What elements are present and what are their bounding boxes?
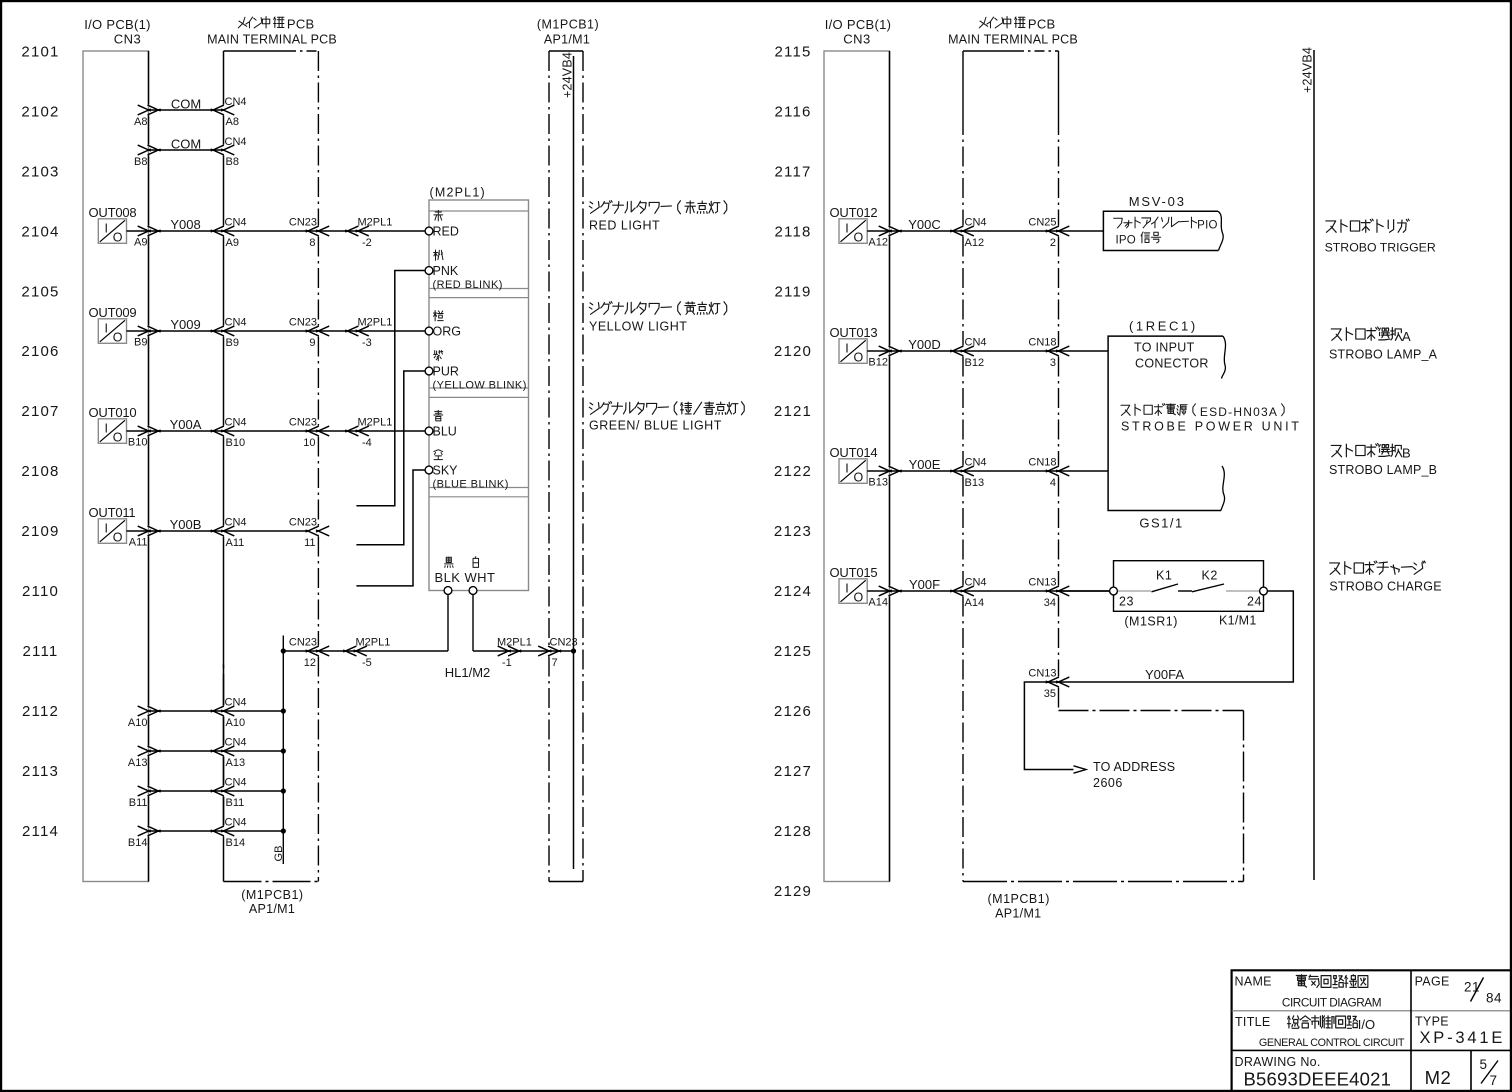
svg-text:CN23: CN23 [289, 217, 317, 229]
terminal BLU on M2PL1 [425, 427, 433, 435]
svg-text:I: I [845, 581, 848, 595]
svg-text:O: O [113, 331, 123, 345]
svg-text:M2PL1: M2PL1 [356, 637, 391, 649]
svg-text:CN18: CN18 [1028, 457, 1056, 469]
svg-text:2103: 2103 [21, 163, 59, 180]
svg-text:A13: A13 [226, 757, 246, 769]
svg-text:2108: 2108 [21, 463, 59, 480]
chevron CN3 A11 out [138, 526, 151, 532]
svg-text:WHT: WHT [465, 570, 496, 585]
label 紫 (PUR) [434, 351, 436, 355]
chevron M2PL1 -1 [508, 646, 521, 652]
chevron CN4 A14 [950, 586, 963, 592]
svg-text:OUT011: OUT011 [89, 505, 136, 520]
svg-text:2113: 2113 [22, 763, 59, 780]
I/O output symbol OUT008 [98, 219, 126, 244]
svg-text:PNK: PNK [433, 264, 459, 278]
wire Y00A [127, 430, 426, 432]
I/O output symbol OUT013 [839, 339, 867, 364]
svg-text:B10: B10 [128, 437, 148, 449]
svg-text:2111: 2111 [23, 643, 59, 660]
svg-text:COM: COM [171, 137, 201, 152]
chevron CN4 B14 [211, 826, 224, 832]
svg-text:2104: 2104 [21, 223, 59, 240]
terminal SKY on M2PL1 [425, 466, 433, 474]
svg-text:(M2PL1): (M2PL1) [430, 186, 486, 200]
chevron M2PL1 -4 [345, 426, 358, 432]
component box MSV-03 [1103, 211, 1218, 250]
I/O output symbol OUT015 [839, 579, 867, 604]
page slash [1471, 978, 1484, 1002]
chevron CN3 A14 out [879, 586, 892, 592]
svg-text:Y00B: Y00B [170, 517, 202, 532]
title 電気回路線図 [1296, 974, 1306, 976]
label 青 (BLU) [435, 410, 442, 412]
svg-text:24: 24 [1247, 595, 1262, 609]
svg-text:2107: 2107 [21, 403, 59, 420]
svg-text:OUT013: OUT013 [830, 325, 878, 340]
svg-text:RED LIGHT: RED LIGHT [589, 219, 660, 233]
svg-text:2115: 2115 [774, 44, 811, 61]
svg-text:A9: A9 [226, 237, 239, 249]
svg-text:CN4: CN4 [225, 777, 247, 789]
svg-text:B14: B14 [128, 837, 148, 849]
MAIN TERMINAL PCB right edge (right) [1058, 51, 1060, 115]
svg-text:MAIN TERMINAL PCB: MAIN TERMINAL PCB [207, 33, 337, 47]
svg-text:GREEN/ BLUE LIGHT: GREEN/ BLUE LIGHT [589, 419, 722, 433]
svg-text:2106: 2106 [21, 343, 59, 360]
svg-text:CN4: CN4 [225, 136, 247, 148]
svg-text:CN13: CN13 [1028, 668, 1056, 680]
svg-text:B11: B11 [129, 797, 148, 809]
MAIN TERMINAL PCB right edge CN23 line (left) [317, 51, 319, 226]
svg-text:2114: 2114 [22, 823, 59, 840]
junction dot GB bus A13 [281, 748, 286, 753]
svg-text:PCB: PCB [287, 17, 315, 32]
svg-text:OUT014: OUT014 [830, 445, 878, 460]
svg-text:CN25: CN25 [1028, 217, 1056, 229]
+24VB4 power rail (right) [1313, 50, 1315, 880]
annotation ストロボチャージ [1330, 563, 1340, 574]
svg-text:2606: 2606 [1093, 776, 1123, 790]
svg-text:5: 5 [1480, 1057, 1488, 1072]
svg-text:A12: A12 [965, 237, 985, 249]
svg-text:B9: B9 [134, 337, 147, 349]
label フォトアイソレートPIO [1114, 218, 1123, 228]
svg-text:2118: 2118 [774, 223, 811, 240]
chevron CN4 A9 [211, 226, 224, 232]
svg-text:B9: B9 [226, 337, 239, 349]
label 白 (WHT) [474, 557, 477, 559]
svg-text:O: O [113, 531, 123, 545]
svg-text:(M1PCB1): (M1PCB1) [537, 18, 599, 32]
svg-text:AP1/M1: AP1/M1 [995, 907, 1041, 921]
wire Y00F [867, 590, 1110, 592]
svg-text:O: O [854, 471, 864, 485]
chevron CN3 B12 out [879, 346, 892, 352]
svg-text:CN23: CN23 [289, 317, 317, 329]
svg-text:I: I [845, 221, 848, 235]
annotation ストロボトリガ [1326, 221, 1336, 232]
svg-text:2117: 2117 [774, 163, 811, 180]
chevron CN4 B8 [211, 145, 224, 151]
chevron CN3 A9 out [138, 226, 151, 232]
terminal BLK on M2PL1 [444, 587, 452, 595]
svg-text:2109: 2109 [21, 523, 59, 540]
svg-text:CN4: CN4 [225, 417, 247, 429]
svg-text:(M1SR1): (M1SR1) [1124, 615, 1178, 629]
svg-text:(M1PCB1): (M1PCB1) [241, 888, 303, 902]
wire Y00E [867, 470, 1108, 472]
svg-text:AP1/M1: AP1/M1 [249, 902, 295, 916]
MAIN TERMINAL PCB step edge vertical (right) [1243, 711, 1245, 882]
chevron CN3 A8 out [138, 105, 151, 111]
svg-text:-3: -3 [362, 337, 372, 349]
chevron CN3 B14 out [138, 826, 151, 832]
svg-text:M2PL1: M2PL1 [358, 217, 393, 229]
header メイン中継PCB (left) [238, 17, 245, 28]
chevron CN4 B13 [950, 466, 963, 472]
svg-text:7: 7 [552, 657, 558, 669]
contact blade K1 [1152, 584, 1179, 592]
terminal 23 (K1 box left) [1110, 587, 1118, 595]
title block divider row1 [1232, 1010, 1510, 1012]
svg-text:A13: A13 [128, 757, 148, 769]
svg-text:34: 34 [1044, 597, 1056, 609]
chevron CN4 B10 [211, 426, 224, 432]
chevron CN4 B12 [950, 346, 963, 352]
svg-text:OUT010: OUT010 [89, 405, 137, 420]
svg-text:A14: A14 [868, 597, 888, 609]
svg-text:2112: 2112 [22, 703, 59, 720]
chevron CN4 A8 [211, 105, 224, 111]
junction dot WHT/+24VB4 [571, 648, 576, 653]
svg-text:COM: COM [171, 97, 201, 112]
chevron M2PL1 -3 [345, 326, 358, 332]
svg-text:I/O PCB(1): I/O PCB(1) [84, 17, 151, 32]
annotation シグナルタワー（黄点灯） [590, 303, 593, 305]
svg-text:2125: 2125 [774, 643, 812, 660]
svg-text:2124: 2124 [774, 583, 812, 600]
svg-text:STROBO LAMP_B: STROBO LAMP_B [1329, 463, 1437, 477]
junction dot GB bus B11 [281, 788, 286, 793]
wire SKY blink [356, 470, 425, 586]
svg-text:O: O [854, 591, 864, 605]
label 橙 (ORG) [434, 310, 436, 320]
CN3 right edge boundary (left) [148, 51, 150, 105]
svg-text:B8: B8 [226, 156, 239, 168]
title 総合制御回路I/O [1288, 1016, 1289, 1019]
svg-text:+24VB4: +24VB4 [561, 52, 575, 98]
chevron CN23 pin 8 [306, 226, 319, 232]
MAIN TERMINAL PCB left edge (left) [223, 51, 225, 105]
MAIN TERMINAL PCB bottom edge (left) [224, 881, 319, 883]
svg-text:CN23: CN23 [550, 637, 578, 649]
svg-text:XP-341E: XP-341E [1420, 1029, 1506, 1047]
svg-text:(BLUE BLINK): (BLUE BLINK) [433, 479, 509, 491]
CN3 right edge boundary (right) [889, 51, 891, 226]
chevron CN13 pin 35 [1046, 677, 1059, 683]
svg-text:CN4: CN4 [225, 217, 247, 229]
wire COM B8 [149, 149, 224, 151]
I/O PCB CN3 connector box (left) [83, 51, 149, 882]
chevron CN4 A12 [950, 226, 963, 232]
svg-text:CIRCUIT DIAGRAM: CIRCUIT DIAGRAM [1282, 996, 1381, 1010]
svg-text:STROBE POWER UNIT: STROBE POWER UNIT [1121, 420, 1302, 434]
svg-text:B10: B10 [226, 437, 246, 449]
contact base line (grey) [1117, 590, 1151, 592]
annotation ストロボ選択A [1331, 329, 1341, 340]
sheet slash [1481, 1061, 1498, 1084]
svg-text:2116: 2116 [774, 104, 811, 121]
svg-text:M2PL1: M2PL1 [358, 317, 393, 329]
svg-text:PUR: PUR [433, 365, 459, 379]
MAIN TERMINAL PCB top edge (left) [224, 50, 287, 52]
label 赤 (RED) [435, 211, 441, 213]
label +24VB4 (left) [561, 52, 575, 98]
svg-text:I: I [105, 521, 108, 535]
svg-text:2110: 2110 [22, 583, 59, 600]
svg-text:3: 3 [1050, 357, 1056, 369]
svg-text:84: 84 [1486, 991, 1502, 1006]
svg-text:10: 10 [303, 437, 315, 449]
chevron CN3 A10 out [138, 706, 151, 712]
wire CN13-35 to address [1024, 682, 1073, 770]
chevron CN4 A11 [211, 526, 224, 532]
svg-text:Y00E: Y00E [909, 457, 941, 472]
svg-text:Y00A: Y00A [170, 417, 202, 432]
chevron CN3 B9 out [138, 326, 151, 332]
svg-text:BLU: BLU [433, 425, 457, 439]
junction dot GB bus A10 [281, 708, 286, 713]
svg-text:I: I [105, 221, 108, 235]
svg-text:CN4: CN4 [225, 697, 247, 709]
svg-text:Y00D: Y00D [908, 337, 941, 352]
chevron CN3 A13 out [138, 746, 151, 752]
terminal WHT on M2PL1 [469, 587, 477, 595]
svg-text:2122: 2122 [774, 463, 812, 480]
svg-text:2: 2 [1050, 237, 1056, 249]
svg-text:B14: B14 [226, 837, 246, 849]
chevron M2PL1 -5 [343, 646, 356, 652]
svg-text:STROBO LAMP_A: STROBO LAMP_A [1329, 348, 1438, 362]
MAIN TERMINAL PCB top edge (right) [963, 50, 1014, 52]
svg-text:A10: A10 [128, 717, 148, 729]
svg-text:I: I [105, 321, 108, 335]
svg-text:Y00FA: Y00FA [1145, 667, 1184, 682]
wire Y00D [867, 350, 1108, 352]
chevron CN3 B10 out [138, 426, 151, 432]
M2PL1 section divider 2a [429, 387, 529, 389]
relay contact box K1/M1 [1114, 561, 1264, 612]
svg-text:B12: B12 [965, 357, 985, 369]
svg-text:TO ADDRESS: TO ADDRESS [1093, 760, 1175, 774]
wire PNK blink [356, 271, 425, 506]
svg-text:CN4: CN4 [965, 577, 987, 589]
GB bus vertical [282, 636, 284, 865]
svg-text:4: 4 [1050, 477, 1056, 489]
svg-text:I: I [845, 341, 848, 355]
svg-text:12: 12 [304, 657, 316, 669]
label ストロボ電源（ESD-HN03A） [1121, 405, 1130, 415]
annotation ストロボ選択B [1331, 445, 1341, 456]
svg-text:TO INPUT: TO INPUT [1134, 341, 1195, 355]
svg-text:11: 11 [304, 537, 315, 549]
M2PL1 section divider 1b [429, 297, 529, 299]
svg-text:DRAWING No.: DRAWING No. [1235, 1055, 1321, 1069]
chevron CN4 B9 [211, 326, 224, 332]
annotation シグナルタワー（赤点灯） [590, 202, 593, 204]
svg-text:A11: A11 [226, 537, 245, 549]
title block divider col [1410, 970, 1412, 1090]
svg-text:K1/M1: K1/M1 [1219, 614, 1257, 628]
svg-text:+24VB4: +24VB4 [1301, 47, 1315, 93]
svg-text:STROBO CHARGE: STROBO CHARGE [1329, 580, 1441, 594]
junction dot GB bus row 2111 [281, 648, 286, 653]
svg-text:CN23: CN23 [289, 417, 317, 429]
svg-text:A10: A10 [226, 717, 246, 729]
svg-text:2128: 2128 [774, 823, 812, 840]
svg-text:2121: 2121 [774, 403, 812, 420]
svg-text:Y008: Y008 [170, 217, 200, 232]
chevron CN23 pin 7 out [538, 646, 551, 652]
svg-text:PIO: PIO [1197, 220, 1218, 232]
label 空 (SKY) [434, 450, 443, 452]
svg-text:OUT009: OUT009 [89, 305, 137, 320]
title block outer box [1232, 970, 1510, 1090]
svg-text:2126: 2126 [774, 703, 812, 720]
svg-text:K2: K2 [1202, 569, 1218, 583]
svg-text:2101: 2101 [21, 44, 59, 61]
wire Y008 [127, 230, 426, 232]
svg-text:2129: 2129 [774, 883, 812, 900]
wire B14 common [149, 830, 284, 832]
svg-text:2105: 2105 [21, 283, 59, 300]
M2PL1 top inner line [429, 210, 529, 212]
wire Y009 [127, 330, 426, 332]
svg-text:CN4: CN4 [965, 217, 987, 229]
M1PCB1 AP1/M1 box right edge (left) [582, 51, 584, 882]
svg-text:ESD-HN03A: ESD-HN03A [1200, 405, 1278, 419]
M1PCB1 AP1/M1 box left edge (left) [548, 51, 550, 646]
wire A10 common [149, 710, 284, 712]
svg-text:2120: 2120 [774, 343, 812, 360]
chevron CN4 A13 [211, 746, 224, 752]
M2PL1 section divider 2b [429, 396, 529, 398]
svg-text:OUT015: OUT015 [830, 565, 878, 580]
wire A13 common [149, 750, 284, 752]
svg-text:8: 8 [309, 237, 315, 249]
M2PL1 section divider 3b [429, 496, 529, 498]
svg-text:MAIN TERMINAL PCB: MAIN TERMINAL PCB [948, 33, 1078, 47]
svg-text:GS1/1: GS1/1 [1139, 516, 1183, 531]
chevron CN3 B8 out [138, 145, 151, 151]
svg-text:9: 9 [309, 337, 315, 349]
svg-text:CN4: CN4 [965, 337, 987, 349]
svg-text:PAGE: PAGE [1415, 975, 1450, 989]
M1PCB1 AP1/M1 box top edge (left) [549, 50, 583, 52]
svg-text:(1REC1): (1REC1) [1129, 319, 1198, 334]
svg-text:B: B [1402, 446, 1411, 461]
svg-text:RED: RED [433, 225, 459, 239]
svg-text:B11: B11 [226, 797, 245, 809]
MAIN TERMINAL PCB step edge horizontal (right) [1059, 710, 1244, 712]
contact mid segment [1178, 590, 1192, 592]
wire K1 right to Y00FA [1048, 591, 1294, 682]
arrow to address [1074, 766, 1087, 773]
I/O output symbol OUT011 [98, 519, 126, 544]
chevron CN13 pin 34 [1046, 586, 1059, 592]
chevron CN3 B11 out [138, 786, 151, 792]
chevron CN3 B13 out [879, 466, 892, 472]
chevron CN23 pin 12 [306, 646, 319, 652]
terminal PNK on M2PL1 [425, 267, 433, 275]
svg-text:35: 35 [1044, 688, 1056, 700]
svg-text:(M1PCB1): (M1PCB1) [988, 892, 1050, 906]
svg-text:A8: A8 [134, 116, 147, 128]
svg-text:ORG: ORG [433, 325, 461, 339]
svg-text:YELLOW LIGHT: YELLOW LIGHT [589, 320, 687, 334]
svg-text:BLK: BLK [435, 570, 461, 585]
svg-text:A9: A9 [134, 237, 147, 249]
svg-text:B13: B13 [868, 477, 888, 489]
svg-text:K1: K1 [1156, 569, 1172, 583]
terminal 24 (K1 box right) [1260, 587, 1268, 595]
wire Y00C [867, 230, 1103, 232]
chevron M2PL1 -2 [345, 226, 358, 232]
svg-text:B5693DEEE4021: B5693DEEE4021 [1244, 1069, 1392, 1090]
svg-text:2127: 2127 [774, 763, 812, 780]
M2PL1 section divider 1a [429, 288, 529, 290]
svg-text:O: O [113, 431, 123, 445]
wire WHT to +24VB4 (row 2111) [472, 594, 474, 651]
chevron CN23 pin 11 [306, 526, 319, 532]
label GB rotated [273, 846, 285, 862]
svg-text:O: O [113, 231, 123, 245]
svg-text:CN4: CN4 [225, 817, 247, 829]
chevron CN23 pin 10 [306, 426, 319, 432]
svg-text:A12: A12 [868, 237, 888, 249]
svg-text:Y00C: Y00C [908, 217, 941, 232]
svg-text:CN18: CN18 [1028, 337, 1056, 349]
svg-text:STROBO TRIGGER: STROBO TRIGGER [1325, 241, 1436, 255]
svg-text:CN4: CN4 [225, 317, 247, 329]
svg-text:CN4: CN4 [225, 517, 247, 529]
svg-text:Y00F: Y00F [909, 577, 940, 592]
title block divider col2 [1470, 1050, 1472, 1090]
svg-text:GB: GB [273, 846, 285, 862]
svg-text:OUT012: OUT012 [830, 205, 878, 220]
M2PL1 section divider 3a [429, 487, 529, 489]
svg-text:PCB: PCB [1028, 17, 1056, 32]
annotation シグナルタワー（緑／青点灯） [590, 403, 593, 405]
component box STROBE POWER UNIT [1108, 336, 1223, 510]
svg-text:(YELLOW BLINK): (YELLOW BLINK) [433, 380, 527, 392]
chevron CN23 pin 9 [306, 326, 319, 332]
svg-text:CN23: CN23 [289, 517, 317, 529]
svg-text:AP1/M1: AP1/M1 [544, 33, 590, 47]
label 桃 (PNK) [435, 250, 437, 260]
svg-text:A8: A8 [226, 116, 239, 128]
svg-text:TYPE: TYPE [1415, 1015, 1449, 1029]
svg-text:2119: 2119 [774, 283, 811, 300]
svg-text:M2: M2 [1425, 1067, 1452, 1088]
svg-text:2102: 2102 [21, 104, 59, 121]
svg-text:2123: 2123 [774, 523, 812, 540]
chevron CN25 pin 2 [1046, 226, 1059, 232]
chevron CN18 pin 4 [1046, 466, 1059, 472]
svg-text:-4: -4 [362, 437, 372, 449]
